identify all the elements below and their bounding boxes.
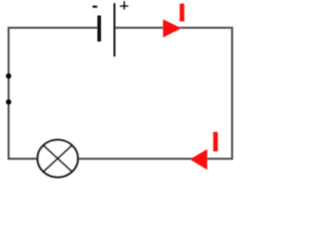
battery B1 negative plate (short thick) [97, 16, 101, 42]
lamp L1 (circle with X) [38, 140, 78, 177]
wire loop (top, right, bottom, left segments) [9, 28, 233, 159]
current arrow (bottom, pointing left) [190, 149, 207, 170]
node A (junction dot upper) [6, 73, 11, 78]
label + (plus) [120, 1, 128, 9]
node B (junction dot lower) [6, 99, 11, 104]
label - (minus) [93, 6, 98, 8]
label I (bottom current) [213, 132, 218, 152]
battery B1 positive plate (long thin) [114, 3, 116, 56]
current arrow (top, pointing right) [163, 19, 181, 37]
label I (top current) [180, 4, 185, 22]
